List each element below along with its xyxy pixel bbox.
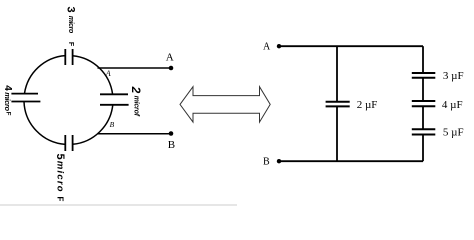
wire: top rail	[279, 45, 423, 47]
wire: middle branch upper	[336, 46, 338, 102]
wire: circle arc bottom-left	[24, 102, 65, 145]
capacitor C_2uF (right of loop)	[100, 94, 129, 105]
wire: middle branch lower	[336, 106, 338, 161]
label: 3 micro F (rotated)	[65, 7, 77, 47]
wire: right branch seg3	[422, 106, 424, 129]
svg-text:F: F	[56, 196, 65, 201]
node dot B (right circuit)	[277, 159, 281, 163]
svg-text:5 µF: 5 µF	[443, 127, 464, 139]
svg-text:3: 3	[65, 7, 77, 13]
svg-text:F: F	[4, 112, 10, 116]
svg-text:2: 2	[129, 86, 143, 94]
wire: bottom rail	[279, 160, 423, 162]
wire: terminal B lead (left figure)	[98, 133, 171, 135]
node dot A (left figure)	[169, 66, 174, 71]
capacitor C_5uF (bottom of loop)	[65, 135, 72, 151]
node dot B (left figure)	[169, 131, 174, 136]
svg-text:A: A	[263, 42, 271, 53]
svg-text:B: B	[110, 120, 115, 129]
capacitor 3uF (right branch)	[412, 73, 436, 78]
capacitor 4uF (right branch)	[412, 101, 436, 106]
wire: circle arc top-right (node A to capacitor C2 top plate)	[73, 56, 113, 95]
capacitor 2uF (middle branch)	[326, 102, 350, 107]
wire: right branch seg2	[422, 78, 424, 101]
equivalence arrow (hollow double-headed)	[180, 87, 270, 122]
svg-text:microf: microf	[132, 96, 139, 117]
wire: circle arc top-left	[25, 56, 66, 94]
svg-text:4: 4	[2, 85, 13, 91]
svg-text:4 µF: 4 µF	[442, 99, 463, 111]
capacitor C_3uF (top of loop)	[65, 49, 72, 65]
wire: terminal A lead (left figure)	[98, 67, 172, 69]
svg-text:3 µF: 3 µF	[443, 70, 464, 82]
wire: right branch seg1	[422, 46, 424, 73]
svg-text:5: 5	[54, 153, 66, 159]
label: 4 micro F (rotated)	[2, 85, 13, 116]
svg-text:A: A	[105, 69, 111, 78]
wire: circle arc bottom-right (capacitor C2 bottom plate to node B)	[73, 105, 113, 145]
svg-text:micro: micro	[55, 161, 66, 193]
svg-text:2 µF: 2 µF	[357, 99, 378, 111]
svg-text:micro: micro	[3, 92, 12, 111]
scan artifact: faint line bottom-left	[0, 204, 237, 206]
svg-text:F: F	[67, 42, 74, 47]
svg-text:micro: micro	[67, 16, 74, 34]
capacitor 5uF (right branch)	[412, 129, 436, 134]
label: 2 microf (rotated)	[129, 86, 143, 117]
node dot A (right circuit)	[277, 44, 281, 48]
svg-text:A: A	[166, 52, 174, 64]
wire: right branch seg4	[422, 135, 424, 162]
svg-text:B: B	[168, 139, 175, 151]
svg-text:B: B	[263, 157, 270, 168]
capacitor C_4uF (left of loop)	[11, 94, 40, 102]
label: 5 micro F (rotated)	[54, 153, 66, 201]
